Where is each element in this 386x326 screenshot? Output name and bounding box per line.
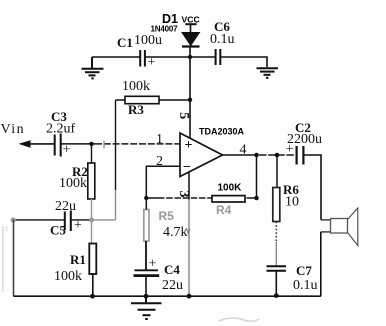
svg-text:22u: 22u <box>162 278 183 293</box>
svg-text:0.1u: 0.1u <box>210 32 235 47</box>
resistor R4 <box>212 182 257 217</box>
capacitor C6 <box>210 19 235 65</box>
svg-text:2.2uf: 2.2uf <box>46 122 76 137</box>
svg-text:R5: R5 <box>159 209 175 223</box>
node C7 bottom <box>274 293 279 298</box>
ground (bottom center) <box>131 296 162 319</box>
wire top rail C1 to C6 <box>146 56 216 58</box>
node output a <box>254 153 259 158</box>
svg-text:VCC: VCC <box>182 14 200 24</box>
svg-text:5: 5 <box>176 112 191 119</box>
svg-text:1N4007: 1N4007 <box>151 24 179 33</box>
wire pin3 down <box>188 172 190 200</box>
svg-text:R3: R3 <box>128 102 144 117</box>
svg-text:10: 10 <box>285 195 299 210</box>
svg-text:C1: C1 <box>117 35 133 50</box>
wire R3 left down to C5 node <box>115 100 117 190</box>
node output b <box>275 153 280 158</box>
svg-text:+: + <box>185 138 193 153</box>
svg-text:100K: 100K <box>218 182 243 193</box>
node C5 left gray <box>11 217 16 222</box>
node VCC junction <box>188 55 192 59</box>
svg-text:+: + <box>149 257 157 272</box>
capacitor C3 <box>46 109 76 158</box>
svg-text:22u: 22u <box>55 199 76 214</box>
ground (top left) <box>82 57 104 78</box>
scan artifact left edge <box>3 226 7 292</box>
node pin3 bottom <box>187 294 192 299</box>
wire left edge down <box>13 220 15 296</box>
ground (top right) <box>257 68 279 78</box>
svg-text:4: 4 <box>240 143 247 158</box>
capacitor C4 <box>134 257 184 297</box>
capacitor C7 <box>267 263 318 295</box>
svg-text:+: + <box>148 55 156 70</box>
capacitor C1 <box>117 33 162 70</box>
resistor R6 <box>273 155 300 266</box>
svg-text:C7: C7 <box>296 263 312 278</box>
Vin arrow <box>1 122 55 148</box>
wire C2 to speaker <box>305 155 322 220</box>
node C4 bottom <box>144 294 149 299</box>
svg-text:1: 1 <box>156 132 163 147</box>
wire C3 to pin1 <box>62 143 96 145</box>
svg-text:100k: 100k <box>122 79 150 94</box>
wire feedback row <box>146 197 158 199</box>
node C5 right gray <box>89 217 94 222</box>
wire pin4 output <box>223 154 251 156</box>
svg-text:100k: 100k <box>54 269 82 284</box>
wire VCC to pin5 <box>189 57 191 138</box>
svg-text:+: + <box>63 143 71 158</box>
svg-text:−: − <box>183 160 191 175</box>
svg-text:+: + <box>74 218 82 233</box>
svg-text:2200u: 2200u <box>287 132 322 147</box>
scan artifact bottom squiggle <box>219 318 259 321</box>
wire top rail C6 to right ground <box>221 57 268 67</box>
node R3 right junction <box>188 98 192 102</box>
wire bottom rail <box>14 295 321 297</box>
svg-text:100k: 100k <box>59 176 87 191</box>
diode D1 <box>151 12 200 57</box>
svg-text:0.1u: 0.1u <box>293 278 318 293</box>
wire top rail left of C1 <box>92 56 140 58</box>
resistor R1 <box>54 220 96 296</box>
svg-text:R1: R1 <box>70 252 86 267</box>
capacitor C5 <box>13 199 91 238</box>
svg-text:C5: C5 <box>50 223 66 238</box>
wire pin2 <box>146 166 180 198</box>
svg-text:100u: 100u <box>134 33 162 48</box>
svg-text:R4: R4 <box>216 203 232 217</box>
resistor R2 <box>59 144 95 220</box>
svg-text:Vin: Vin <box>1 122 26 137</box>
wire gray C5 node to R3 drop <box>92 219 116 221</box>
svg-text:C4: C4 <box>164 262 180 277</box>
op-amp U1 TDA2030A <box>176 112 245 197</box>
svg-text:2: 2 <box>156 154 163 169</box>
node feedback left <box>144 196 148 200</box>
speaker LS1 <box>321 208 358 296</box>
wire R4 to output <box>256 155 258 198</box>
resistor R3 <box>116 79 191 117</box>
node input bias junction <box>89 142 93 146</box>
svg-text:TDA2030A: TDA2030A <box>199 127 245 137</box>
capacitor C2 <box>286 120 322 165</box>
node R4 right <box>254 196 259 201</box>
node R1 bottom <box>90 294 95 299</box>
svg-text:4.7k: 4.7k <box>163 225 188 240</box>
resistor R5 <box>144 198 190 270</box>
